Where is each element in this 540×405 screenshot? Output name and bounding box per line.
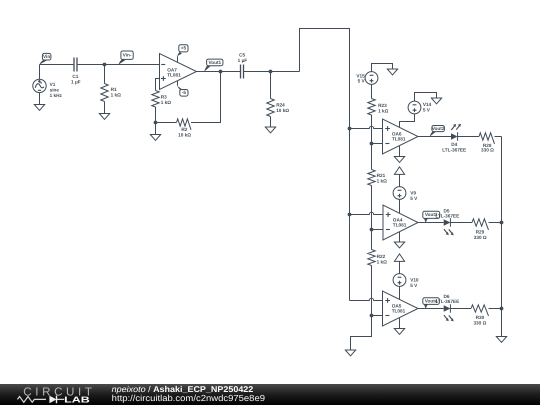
svg-text:1 µF: 1 µF (71, 79, 81, 84)
svg-text:TL081: TL081 (392, 137, 406, 142)
wire OA5 V- pin to ground (399, 318, 401, 329)
wire divider to OA5 - input (372, 315, 383, 317)
wire D4 to R28 (458, 136, 479, 138)
wire divider to OA4 - input (372, 229, 384, 231)
resistor R2 10k (feedback) (156, 119, 192, 138)
wire OA4 V- pin to ground (399, 232, 401, 242)
svg-text:sine: sine (50, 87, 60, 92)
resistor R28 330 (479, 133, 502, 153)
svg-text:R24: R24 (276, 103, 285, 108)
resistor R22 1k (368, 250, 387, 266)
svg-text:330 Ω: 330 Ω (481, 147, 494, 152)
wire OA7 + input to R3 (156, 79, 160, 91)
voltage source V9 5V (393, 187, 418, 201)
node +5 flag (OA7 V+) (177, 45, 188, 62)
svg-text:5 V: 5 V (358, 79, 366, 84)
node junction rail/R30 (500, 307, 504, 311)
svg-text:TL081: TL081 (393, 223, 407, 228)
svg-text:1 kHz: 1 kHz (50, 93, 63, 98)
svg-text:V14: V14 (423, 102, 432, 107)
node junction rail/R29 (500, 221, 504, 225)
wire D6 to R30 (450, 308, 471, 310)
svg-text:C5: C5 (239, 52, 245, 57)
node Vin- flag (118, 51, 133, 65)
svg-text:1 kΩ: 1 kΩ (377, 179, 388, 184)
svg-text:5 V: 5 V (410, 283, 418, 288)
op-amp OA5 TL081 (383, 291, 419, 326)
resistor R21 1k (368, 170, 387, 186)
voltage source V15 5V (356, 64, 392, 99)
wire V9 to OA4 V+ pin (399, 199, 401, 213)
ground (divider end) (345, 350, 357, 356)
svg-text:R29: R29 (476, 230, 485, 235)
node -5 flag (OA7 V-) (177, 81, 188, 96)
ground (V14) (431, 98, 443, 104)
node Vout4 flag (423, 298, 440, 309)
svg-text:Vin: Vin (43, 54, 50, 59)
node junction R24 top (269, 70, 273, 74)
svg-text:330 Ω: 330 Ω (474, 235, 487, 240)
svg-text:LTL-367EE: LTL-367EE (442, 147, 466, 152)
svg-text:5 V: 5 V (410, 196, 418, 201)
wire divider to OA6 - input (372, 143, 383, 145)
wire input net Vin: V1 to C1 to OA7 inverting input (40, 64, 160, 66)
svg-text:TL081: TL081 (392, 309, 406, 314)
ground (V15) (387, 69, 399, 75)
svg-text:V9: V9 (410, 191, 416, 196)
ground (V1) (34, 105, 46, 111)
svg-text:1 kΩ: 1 kΩ (378, 109, 389, 114)
svg-text:V15: V15 (356, 73, 365, 78)
node junction divider/OA4- (370, 228, 374, 232)
svg-text:Vout2: Vout2 (432, 126, 445, 131)
wire bus corner to OA5 + input (hop over divider) (350, 298, 383, 300)
wire bus to OA6 + input (hop over divider) (350, 126, 383, 128)
wire divider chain R21-R22 (371, 186, 373, 250)
ground (OA6) (394, 157, 406, 163)
wire V10 to OA5 V+ pin (399, 286, 401, 299)
node junction R3/R2/ground (154, 121, 158, 125)
svg-text:5 V: 5 V (423, 108, 431, 113)
node V+ arrow flag (V9) (394, 167, 404, 187)
svg-text:LAB: LAB (64, 395, 90, 405)
wire OA6 V+ pin to V14 (400, 114, 415, 127)
svg-text:10 kΩ: 10 kΩ (178, 132, 191, 137)
voltage source V14 5V (408, 93, 436, 114)
svg-text:Vout1: Vout1 (208, 60, 221, 65)
ground (OA5) (394, 329, 406, 335)
node junction divider/OA6- (370, 142, 374, 146)
svg-text:R2: R2 (181, 127, 187, 132)
footer bar (0, 384, 540, 405)
LED D6 LTL-367EE (435, 294, 459, 322)
capacitor C1 1uF (71, 58, 81, 85)
ground (right rail) (496, 337, 508, 343)
wire OA7 output net Vout1 (197, 71, 300, 73)
node junction bus/OA4+ (348, 213, 352, 217)
svg-text:R30: R30 (476, 315, 485, 320)
wire divider chain R23-R21 (371, 115, 373, 170)
wire OA6 V- pin to ground (399, 146, 401, 157)
svg-text:C1: C1 (72, 74, 78, 79)
wire bus to OA4 + input (hop over divider) (350, 212, 384, 214)
wire OA5 output (418, 308, 444, 310)
svg-text:Vout3: Vout3 (425, 212, 438, 217)
svg-text:R21: R21 (377, 173, 386, 178)
node junction divider/OA5- (370, 314, 374, 318)
resistor R1 1k (101, 65, 121, 114)
node Vout1 flag (204, 59, 223, 72)
CircuitLab logo (17, 385, 95, 404)
node junction bus/OA6+ (348, 127, 352, 131)
svg-text:V1: V1 (50, 82, 56, 87)
node junction R1 top (103, 63, 107, 67)
resistor R29 330 (472, 219, 502, 240)
wire D5 to R29 (450, 222, 472, 224)
svg-text:R22: R22 (377, 254, 386, 259)
svg-text:-5: -5 (182, 90, 187, 95)
op-amp OA4 TL081 (383, 205, 418, 240)
svg-text:R1: R1 (111, 87, 117, 92)
svg-text:1 kΩ: 1 kΩ (111, 93, 122, 98)
svg-text:D6: D6 (444, 294, 450, 299)
svg-text:R23: R23 (378, 103, 387, 108)
ground (R3/R2 junction) (150, 135, 162, 141)
wire right rail down to ground (501, 137, 503, 337)
svg-text:Vout4: Vout4 (425, 298, 438, 303)
ground (R24) (265, 127, 277, 133)
footer title text (112, 384, 265, 403)
resistor R30 330 (471, 305, 502, 326)
node V+ arrow flag (V10) (394, 254, 404, 274)
ground (OA4) (394, 242, 406, 248)
resistor R3 1k (152, 91, 171, 135)
wire signal bus to comparator + inputs (300, 29, 350, 301)
LED D4 LTL-367EE (442, 124, 466, 153)
resistor R24 10k (267, 72, 290, 128)
svg-text:TL081: TL081 (167, 73, 181, 78)
svg-text:+5: +5 (181, 46, 187, 51)
wire feedback from Vout1 down to R2 (191, 72, 221, 123)
svg-text:330 Ω: 330 Ω (473, 321, 486, 326)
LED D5 LTL-367EE (435, 208, 459, 235)
resistor R23 1k (368, 99, 389, 116)
node Vin flag (39, 53, 51, 64)
node junction Vout1/feedback (219, 70, 223, 74)
op-amp OA7 TL081 (160, 54, 197, 90)
wire OA6 output (418, 136, 451, 138)
svg-text:1 µF: 1 µF (238, 58, 248, 63)
svg-text:1 kΩ: 1 kΩ (161, 100, 172, 105)
voltage source V10 5V (393, 274, 419, 288)
svg-text:1 kΩ: 1 kΩ (377, 260, 388, 265)
voltage source V1 sine 1kHz (33, 65, 63, 105)
svg-text:Vin-: Vin- (123, 52, 132, 57)
ground (R1) (99, 114, 111, 120)
svg-text:http://circuitlab.com/c2nwdc97: http://circuitlab.com/c2nwdc975e8e9 (112, 393, 265, 403)
node Vout2 flag (430, 126, 445, 137)
node Vout3 flag (423, 211, 440, 222)
svg-text:D5: D5 (444, 208, 450, 213)
svg-text:V10: V10 (410, 278, 419, 283)
svg-text:R3: R3 (161, 95, 167, 100)
capacitor C5 1uF (238, 52, 248, 78)
svg-text:10 kΩ: 10 kΩ (276, 108, 289, 113)
wire OA4 output (418, 222, 444, 224)
op-amp OA6 TL081 (383, 119, 419, 154)
wire divider chain R22 down and to ground (351, 266, 372, 351)
